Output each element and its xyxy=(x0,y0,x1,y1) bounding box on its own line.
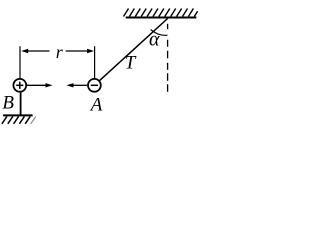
svg-text:B: B xyxy=(2,93,14,114)
force arrow on A xyxy=(73,84,88,86)
charge A circle xyxy=(88,79,101,92)
ground line xyxy=(3,114,32,116)
force arrow on B xyxy=(27,84,47,86)
minus sign in A xyxy=(91,84,98,86)
dashed vertical line xyxy=(167,24,169,92)
svg-text:α: α xyxy=(149,29,160,51)
ceiling hatching xyxy=(124,9,198,17)
string T xyxy=(100,19,168,81)
r dimension right arrow xyxy=(66,50,89,52)
charge B circle xyxy=(13,79,26,92)
post under B xyxy=(20,92,22,116)
angle arc xyxy=(151,30,168,36)
svg-text:T: T xyxy=(125,53,137,74)
plus sign in B xyxy=(16,84,23,86)
tick above B xyxy=(19,46,21,79)
ceiling line xyxy=(126,17,197,19)
svg-text:r: r xyxy=(56,42,64,62)
r dimension left arrow xyxy=(27,50,50,52)
tick above A xyxy=(94,46,96,79)
svg-text:A: A xyxy=(89,95,103,116)
ground hatching xyxy=(2,116,36,123)
